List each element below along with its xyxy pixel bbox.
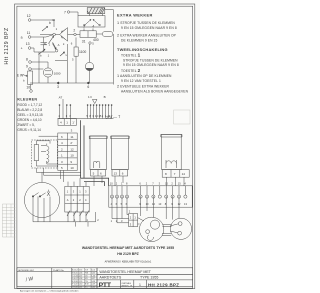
table outer — [17, 268, 193, 288]
wire hook lever line — [34, 43, 56, 52]
contact arrows below boxes — [67, 211, 89, 216]
svg-text:GRIJS = 9,11,14: GRIJS = 9,11,14 — [17, 128, 41, 132]
wire from terminal 12 — [31, 20, 54, 27]
right rows — [97, 274, 193, 280]
terminal 13 — [28, 47, 31, 50]
svg-text:Htt 2129 BPZ: Htt 2129 BPZ — [4, 27, 10, 64]
svg-text:2-59: 2-59 — [91, 284, 95, 286]
svg-text:7: 7 — [64, 10, 66, 14]
ringer coil block K3 — [161, 134, 182, 169]
cord arrow funnel — [92, 99, 97, 103]
wires K3 to strip — [167, 177, 185, 186]
wire terminal 7 to box — [70, 12, 78, 16]
capacitor C2 block — [102, 32, 113, 37]
wire node to triangle — [55, 34, 59, 36]
contact b1 — [42, 26, 48, 31]
middle tiny labels — [58, 95, 187, 226]
handset entry wires — [138, 218, 144, 224]
inductor L1 — [47, 144, 49, 163]
svg-text:8: 8 — [26, 58, 28, 62]
svg-text:+: + — [21, 47, 23, 51]
trunk horizontal double — [81, 178, 109, 181]
svg-text:10: 10 — [26, 86, 30, 90]
node 5 circle — [89, 42, 91, 44]
svg-text:1100: 1100 — [79, 50, 86, 54]
ladder grid — [2, 204, 15, 237]
svg-text:D 4-57: D 4-57 — [72, 278, 77, 280]
drawing frame inner — [17, 6, 193, 286]
wire right trunk — [105, 10, 114, 85]
node circle 1 — [55, 49, 58, 52]
svg-text:4: 4 — [92, 25, 94, 29]
svg-text:a: a — [21, 35, 23, 39]
handset cord wires — [112, 196, 127, 223]
svg-text:A 12-4: A 12-4 — [72, 269, 77, 272]
svg-text:4-57: 4-57 — [79, 275, 83, 277]
svg-text:31: 31 — [82, 39, 86, 43]
wire from terminal 13 — [31, 48, 34, 52]
pencil rect faint — [174, 110, 190, 124]
wire resistor to bus — [75, 56, 77, 83]
wire triangle to terminal 2 — [68, 34, 74, 36]
wires strip to handset — [141, 196, 179, 220]
contact b2 — [39, 49, 46, 54]
node 3 junction — [57, 82, 60, 84]
terminal 12 — [28, 19, 31, 22]
rectifier triangle Gr — [60, 28, 68, 42]
wire from terminal 11 — [31, 35, 53, 37]
svg-text:11: 11 — [70, 135, 73, 139]
wire horizontal stub — [55, 59, 67, 61]
wire resistor R2 to terminal 10 — [29, 84, 32, 89]
svg-text:2-59: 2-59 — [79, 281, 83, 283]
ringer coil W 1000 — [43, 68, 52, 77]
svg-text:STROPJE TUSSEN DE KLEMMEN: STROPJE TUSSEN DE KLEMMEN — [123, 58, 178, 62]
drawing frame outer — [15, 4, 195, 289]
svg-text:B: B — [104, 95, 106, 99]
hook switch box HC — [78, 16, 105, 27]
svg-text:4-57: 4-57 — [91, 278, 95, 280]
svg-text:9-58: 9-58 — [91, 281, 95, 283]
svg-text:1 STROPJE TUSSEN DE KLEMMEN: 1 STROPJE TUSSEN DE KLEMMEN — [117, 21, 175, 25]
wire vertical to bus — [38, 52, 40, 83]
svg-text:G 6-60: G 6-60 — [72, 287, 78, 289]
earth key EW arrow — [23, 75, 28, 77]
handset wires into box — [112, 215, 129, 223]
trunk step — [105, 178, 109, 186]
svg-text:TOESTEL 1: TOESTEL 1 — [121, 53, 141, 58]
svg-text:E 9-58: E 9-58 — [72, 281, 77, 283]
svg-text:10: 10 — [70, 166, 74, 170]
contact a1 — [48, 36, 53, 43]
svg-text:WANDTOESTEL HEEMAF MET AARDTOE: WANDTOESTEL HEEMAF MET AARDTOETS TYPE 19… — [82, 246, 174, 250]
svg-text:2 EVENTUELE EXTRA WEKKER: 2 EVENTUELE EXTRA WEKKER — [117, 84, 169, 88]
wires dashed box to dial bus — [36, 168, 43, 175]
svg-text:9 EN 15 OMLEGGEN NAAR 9 EN 8: 9 EN 15 OMLEGGEN NAAR 9 EN 8 — [123, 63, 179, 67]
wire group 2 — [88, 106, 112, 119]
wire AT drop — [62, 99, 64, 119]
connector strip ticks — [112, 186, 185, 195]
dashed component box — [31, 140, 57, 168]
svg-text:Htt 2129 BPZ: Htt 2129 BPZ — [117, 252, 139, 256]
revision grid noise text — [72, 269, 95, 289]
wire group 1 — [60, 106, 71, 119]
handset junction box — [129, 214, 138, 227]
svg-text:1-56: 1-56 — [79, 273, 83, 275]
svg-text:1: 1 — [139, 283, 141, 287]
svg-text:11: 11 — [27, 31, 31, 35]
resistor R1 1100 — [74, 47, 78, 56]
svg-text:ROOD = 1,7,7,12: ROOD = 1,7,7,12 — [17, 103, 42, 107]
dial contact dots — [32, 195, 41, 197]
terminal cells 4 1 1' — [58, 119, 76, 126]
resistor R3 — [34, 145, 38, 161]
terminal 7 — [67, 11, 69, 13]
capacitor C1 — [41, 37, 48, 52]
schematic tiny labels — [17, 10, 99, 89]
svg-text:2: 2 — [73, 29, 75, 33]
svg-text:EXTRA WEKKER: EXTRA WEKKER — [117, 13, 153, 18]
svg-text:13: 13 — [26, 42, 30, 46]
svg-text:3-55: 3-55 — [79, 270, 83, 272]
terminal 10 — [30, 90, 33, 93]
svg-text:12: 12 — [70, 147, 74, 151]
wire terminal 8 to ringer — [31, 62, 48, 68]
wires boxes up to trunk — [68, 178, 86, 186]
svg-text:PTT: PTT — [99, 282, 112, 289]
svg-text:B 3-55: B 3-55 — [72, 273, 77, 275]
svg-text:6-60: 6-60 — [91, 287, 95, 289]
wires strip bottom drops — [61, 170, 64, 182]
handset left shell — [139, 217, 163, 241]
svg-text:1 h: 1 h — [88, 95, 93, 99]
svg-text:3: 3 — [57, 85, 59, 89]
dial bottom wires — [33, 206, 50, 222]
wire node 5 down — [89, 44, 91, 83]
svg-text:1-61: 1-61 — [79, 287, 83, 289]
revision mini grid — [72, 268, 97, 288]
svg-text:2 S — 7: 2 S — 7 — [106, 114, 122, 120]
pencil note faint — [106, 114, 122, 120]
contact a2 — [53, 42, 57, 49]
dial contact arms — [33, 190, 50, 197]
svg-text:K.L: K.L — [85, 287, 88, 289]
svg-text:WERKPL. TF: WERKPL. TF — [121, 285, 133, 287]
connector strip lugs — [110, 195, 187, 198]
svg-text:2 EXTRA WEKKER AANSLUITEN OP: 2 EXTRA WEKKER AANSLUITEN OP — [117, 33, 177, 37]
connector strip C — [109, 186, 192, 207]
svg-text:14: 14 — [182, 172, 186, 176]
svg-text:13: 13 — [114, 172, 118, 176]
hook switch coil (hatched) — [87, 8, 105, 16]
svg-text:TOESTEL 2: TOESTEL 2 — [121, 68, 141, 73]
wire coil bottom lead 6 — [75, 37, 77, 47]
svg-text:9 EN 15 OMLEGGEN NAAR 9 EN 8: 9 EN 15 OMLEGGEN NAAR 9 EN 8 — [121, 26, 177, 30]
svg-text:a1: a1 — [43, 41, 47, 45]
svg-text:C 1-56: C 1-56 — [72, 275, 77, 277]
wires K1 K2 to strip — [94, 176, 123, 186]
terminal 2 — [74, 33, 76, 35]
wire terminal 9 to ringer — [31, 68, 43, 70]
svg-text:9-58: 9-58 — [79, 278, 83, 280]
wire coil to capacitor C2 — [96, 33, 102, 35]
svg-text:12-4: 12-4 — [91, 270, 95, 272]
svg-text:12: 12 — [27, 14, 31, 18]
svg-text:3-55: 3-55 — [91, 273, 95, 275]
svg-text:AFWERKING I KBB/LHBN TEF K2x2x: AFWERKING I KBB/LHBN TEF K2x2x0x1 — [105, 261, 152, 264]
svg-text:3: 3 — [83, 25, 85, 29]
svg-text:GROEN = 4,6,10: GROEN = 4,6,10 — [17, 118, 41, 122]
svg-text:DE KLEMMEN 9 EN 15: DE KLEMMEN 9 EN 15 — [121, 38, 157, 42]
node circle center — [53, 33, 56, 36]
svg-text:E W: E W — [17, 74, 24, 78]
wire node stub left — [40, 34, 53, 36]
wire middle vertical — [66, 44, 68, 83]
svg-text:KLEUREN: KLEUREN — [17, 98, 37, 102]
main bus wire — [30, 82, 113, 84]
handset transmitter capsule — [146, 220, 160, 240]
PTT box divider — [121, 280, 147, 288]
ringer coil block K3 cells — [162, 170, 189, 178]
terminal 11 — [28, 36, 31, 39]
dial top wire — [36, 172, 80, 182]
svg-text:WANDTOESTEL HEEMAF MET: WANDTOESTEL HEEMAF MET — [99, 270, 151, 274]
svg-text:GEEL = 3,9,13,15: GEEL = 3,9,13,15 — [17, 113, 43, 117]
svg-text:A: A — [58, 43, 60, 47]
contact h — [60, 52, 65, 56]
trunk vertical double — [81, 120, 84, 178]
svg-text:400: 400 — [93, 38, 99, 42]
dial exit stubs — [76, 212, 96, 227]
microphone M — [85, 62, 93, 70]
bus bar 2 — [58, 118, 114, 120]
terminal 8 — [29, 61, 32, 64]
capacitor block K2 — [111, 136, 130, 170]
svg-text:BLAUW = 2,2,2,8: BLAUW = 2,2,2,8 — [17, 108, 42, 112]
svg-text:1-56: 1-56 — [91, 275, 95, 277]
dial inner wires — [33, 196, 50, 206]
wire terminal 2 to coil — [76, 34, 80, 36]
svg-text:9 EN 12 VAN TOESTEL 1: 9 EN 12 VAN TOESTEL 1 — [121, 79, 161, 83]
svg-text:ZWART = 5,: ZWART = 5, — [17, 123, 35, 127]
svg-text:10: 10 — [70, 154, 74, 158]
handset grip bars — [162, 224, 172, 235]
paper background — [0, 0, 200, 293]
svg-text:AANSLUITEN ALS BOVEN AANGEGEVE: AANSLUITEN ALS BOVEN AANGEGEVEN — [121, 90, 189, 94]
resistor R2 (earth key) — [28, 71, 33, 84]
svg-text:1 AANSLUITEN OP DE KLEMMEN: 1 AANSLUITEN OP DE KLEMMEN — [117, 74, 172, 78]
svg-text:TWEELINGSCHAKELING: TWEELINGSCHAKELING — [117, 47, 168, 52]
svg-text:AARDTOETS: AARDTOETS — [99, 276, 122, 280]
wires dashed box to strip — [36, 136, 57, 166]
wire ringer to bus — [47, 77, 49, 83]
svg-text:6-60: 6-60 — [79, 284, 83, 286]
svg-text:6: 6 — [87, 85, 89, 89]
wire group 2 dots — [87, 104, 113, 106]
svg-text:GETEKEND GEZ.: GETEKEND GEZ. — [18, 270, 35, 272]
terminal 9 — [29, 68, 32, 71]
svg-text:AT: AT — [59, 95, 63, 99]
dial circle NS — [24, 182, 59, 217]
capacitor block K1 cells — [91, 170, 106, 176]
svg-text:Htt 2129 BPZ: Htt 2129 BPZ — [148, 283, 179, 288]
svg-text:b: b — [49, 21, 51, 25]
svg-text:9: 9 — [26, 65, 28, 69]
induction coil T1 — [80, 28, 96, 37]
svg-text:1000: 1000 — [54, 71, 61, 75]
handset receiver capsule — [170, 222, 182, 235]
handset right shell — [170, 218, 191, 239]
svg-text:B.W: B.W — [85, 284, 89, 286]
capacitor block K1 — [89, 136, 107, 170]
capacitor block K2 cells — [112, 170, 128, 176]
connection strip B1 — [58, 133, 77, 170]
wire group 1 dots — [59, 104, 71, 106]
left col dividers — [52, 268, 72, 288]
svg-text:TYPE 1955: TYPE 1955 — [140, 276, 158, 280]
svg-text:PLAATS No.: PLAATS No. — [53, 269, 65, 272]
svg-text:Aanvragen om exemplaren — On: Aanvragen om exemplaren — Onbevoegd gebr… — [20, 289, 79, 292]
table left/right divider — [96, 268, 98, 288]
dial exit bus — [33, 221, 96, 223]
aard contact box B — [77, 186, 89, 212]
wires below contact boxes — [68, 212, 86, 222]
svg-text:F 2-59: F 2-59 — [72, 284, 77, 286]
aard contact box A — [65, 186, 77, 212]
left header row — [17, 270, 97, 272]
svg-text:A: A — [67, 198, 69, 202]
node 6 junction — [87, 82, 90, 84]
